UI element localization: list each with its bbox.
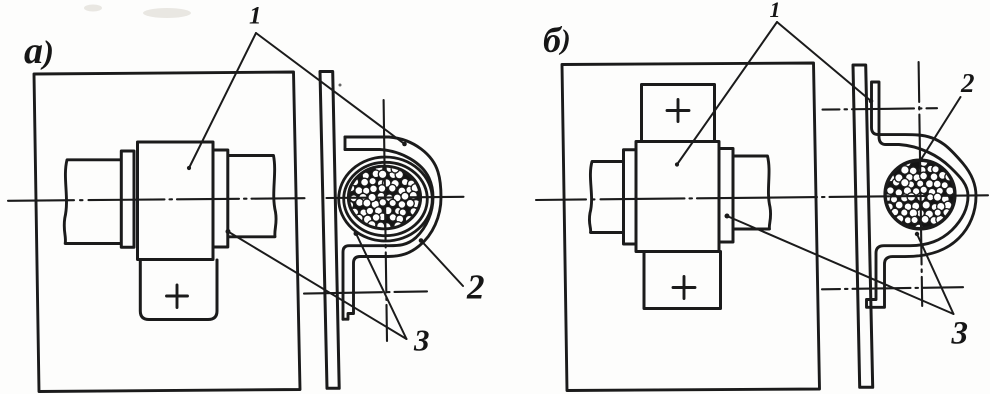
foot bolt axis line (a) bbox=[304, 291, 427, 293]
scan speck bbox=[339, 84, 342, 87]
clamp body (b) bbox=[636, 142, 719, 252]
hook strap outer edge (a) bbox=[343, 137, 441, 319]
hook free end cap (a) bbox=[344, 137, 347, 150]
vertical axis line cable (a) bbox=[384, 100, 387, 341]
clamp body (a) bbox=[138, 142, 214, 260]
mounting plate side view (b) bbox=[853, 65, 873, 387]
leader 2 to cable (b) bbox=[921, 97, 961, 160]
leader 1 to clamp body (a) bbox=[189, 33, 256, 168]
omega strap (b) bbox=[867, 82, 977, 307]
leader 1 to strap (b) bbox=[777, 22, 871, 101]
svg-text:1: 1 bbox=[249, 3, 262, 30]
horizontal axis line (a) bbox=[8, 197, 464, 201]
top bolt pad (b) bbox=[642, 85, 715, 142]
scan smudge top bbox=[84, 5, 191, 19]
cable ring outer (a) bbox=[339, 157, 433, 241]
panel outline (b) bbox=[562, 63, 820, 391]
leader 3 from strap (b) bbox=[917, 234, 954, 314]
cable conductor disk (b) bbox=[884, 158, 954, 232]
leader end dots bbox=[187, 99, 923, 243]
leader 3 from flange (a) bbox=[228, 232, 407, 340]
horizontal axis line (b) bbox=[536, 195, 988, 200]
hook strap inner edge (a) bbox=[343, 150, 433, 320]
cross mark on pad (a) bbox=[167, 285, 188, 308]
busbar right section (b) bbox=[733, 156, 771, 229]
busbar left section (b) bbox=[589, 162, 623, 233]
bottom bolt axis line (b) bbox=[822, 287, 963, 289]
clamp side flange left (a) bbox=[121, 151, 134, 247]
leader 3 from strap foot (a) bbox=[356, 234, 407, 340]
svg-text:2: 2 bbox=[960, 68, 975, 98]
leader 2 to cable (a) bbox=[421, 241, 463, 287]
stipple over-layer (a) bbox=[346, 165, 417, 230]
top bolt axis line (b) bbox=[823, 108, 938, 109]
cross mark top pad (b) bbox=[667, 100, 689, 122]
cable conductor disk (a) bbox=[347, 167, 420, 232]
bolt pad with cross (a) bbox=[140, 260, 217, 320]
leader 3 from flange (b) bbox=[727, 216, 954, 314]
leader 1 to clamp body (b) bbox=[677, 22, 777, 165]
cable ring inner (a) bbox=[344, 162, 428, 235]
panel outline (a) bbox=[34, 72, 300, 392]
busbar right section (a) bbox=[228, 156, 276, 237]
svg-text:3: 3 bbox=[951, 316, 969, 352]
stipple over-layer (b) bbox=[887, 159, 945, 223]
bottom bolt pad (b) bbox=[644, 252, 721, 309]
cross mark bottom pad (b) bbox=[673, 277, 695, 299]
svg-text:1: 1 bbox=[770, 0, 781, 22]
svg-text:3: 3 bbox=[413, 323, 430, 358]
busbar left section (a) bbox=[64, 160, 121, 244]
svg-text:2: 2 bbox=[466, 268, 485, 307]
svg-text:б): б) bbox=[543, 20, 571, 60]
clamp side flange right (a) bbox=[213, 150, 228, 247]
clamp side flange right (b) bbox=[719, 149, 734, 243]
leader 1 to hook strap (a) bbox=[256, 33, 405, 144]
mounting plate side view (a) bbox=[320, 72, 339, 389]
svg-text:а): а) bbox=[24, 30, 54, 72]
clamp side flange left (b) bbox=[624, 150, 637, 244]
vertical axis line cable (b) bbox=[919, 62, 923, 306]
